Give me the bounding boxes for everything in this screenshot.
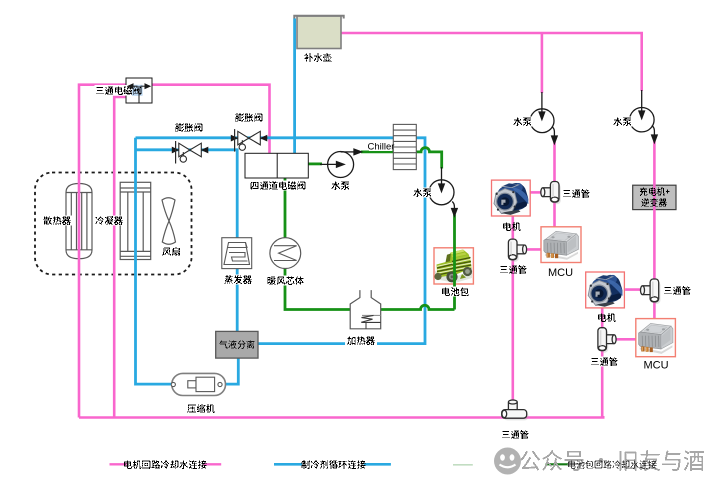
svg-text:MCU: MCU (643, 359, 668, 371)
svg-text:Chiller: Chiller (368, 141, 395, 152)
svg-text:MCU: MCU (548, 267, 573, 279)
